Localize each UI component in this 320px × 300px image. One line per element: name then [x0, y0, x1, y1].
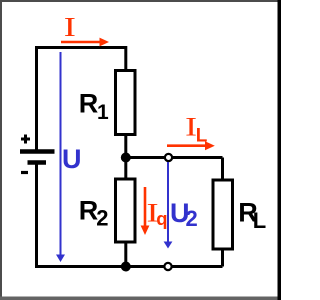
label Iq [147, 198, 159, 227]
voltage arrow U [60, 52, 62, 255]
voltage arrow U2 [167, 162, 169, 242]
resistor R2 [116, 179, 136, 242]
svg-text:2: 2 [186, 206, 198, 231]
label IL [185, 112, 197, 141]
battery minus sign [21, 171, 28, 174]
wire: R1 top stem [124, 46, 127, 70]
current arrow Iq [144, 187, 147, 226]
svg-text:2: 2 [96, 206, 108, 231]
wire: middle horizontal [126, 156, 223, 159]
svg-text:R: R [79, 89, 99, 119]
current arrow I (top) [61, 41, 100, 44]
wire: R2 top stem [124, 158, 127, 180]
svg-text:L: L [253, 208, 266, 233]
battery plus sign [21, 135, 30, 144]
battery V1 top plate [20, 149, 55, 154]
wire: RL bottom stem [221, 249, 224, 267]
wire: R1 bottom to node A [124, 136, 127, 158]
node B (junction dot, bottom) [121, 262, 131, 272]
svg-text:q: q [156, 208, 167, 229]
svg-text:L: L [196, 126, 208, 147]
wire: top horizontal + left vertical down to battery [37, 48, 126, 151]
current arrow IL [167, 144, 206, 147]
terminal (open circle, middle) [165, 154, 172, 161]
svg-text:I: I [64, 11, 76, 41]
battery V1 bottom plate [28, 160, 47, 165]
resistor RL [213, 180, 233, 249]
wire: R2 bottom stem [124, 242, 127, 267]
svg-text:1: 1 [97, 101, 109, 124]
terminal (open circle, bottom) [164, 263, 171, 270]
wire: RL top stem [221, 158, 224, 181]
wire: battery bottom to bottom-left corner and bottom horizontal [37, 163, 223, 267]
node A (junction dot, middle) [121, 153, 131, 163]
svg-text:U: U [62, 144, 82, 174]
resistor R1 [116, 71, 136, 135]
label I [64, 11, 76, 41]
